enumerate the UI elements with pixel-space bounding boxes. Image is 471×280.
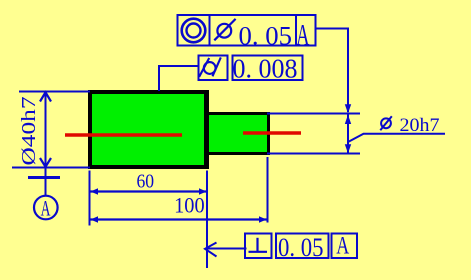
40h7 open arrow down — [40, 158, 51, 167]
60 arrow right — [199, 188, 207, 194]
20h7 dimension line — [347, 114, 349, 154]
cylindricity symbol — [199, 57, 221, 76]
centerline left segment — [65, 133, 182, 136]
20h7 bottom extension line — [267, 153, 360, 155]
step edge overlap — [204, 90, 209, 169]
100 arrow left — [91, 216, 99, 222]
concentricity symbol — [182, 19, 206, 43]
svg-text:0. 05: 0. 05 — [278, 233, 324, 262]
60 arrow left — [91, 188, 99, 194]
svg-text:0. 05: 0. 05 — [239, 20, 293, 50]
20h7 arrow down inside — [345, 144, 351, 153]
F3 open arrow at step extension line — [205, 243, 217, 257]
svg-text:A: A — [296, 17, 310, 52]
svg-text:0. 008: 0. 008 — [233, 54, 298, 84]
feature control frame F1 box: concentricity 0.05 A — [178, 15, 316, 46]
shaft large section (40h7 cylinder) — [90, 92, 207, 167]
dimension 100 line — [90, 218, 267, 220]
svg-text:A: A — [336, 232, 349, 260]
svg-text:Ø40h7: Ø40h7 — [18, 97, 40, 166]
20h7 arrow up inside — [345, 115, 351, 124]
20h7 top extension line — [267, 113, 360, 115]
F1 leader wire to 20h7 dimension line — [316, 29, 349, 113]
40h7 top extension line — [19, 91, 90, 93]
40h7 dimension line — [45, 92, 47, 168]
svg-text:100: 100 — [174, 193, 205, 218]
dimension 60 line — [90, 190, 207, 192]
svg-text:20h7: 20h7 — [400, 116, 440, 136]
svg-text:A: A — [41, 196, 51, 220]
diameter symbol in F1 — [214, 19, 235, 40]
feature control frame F2 boxes: cylindricity 0.008 — [199, 56, 303, 81]
extension line below right face — [267, 157, 269, 223]
perpendicularity symbol — [249, 238, 268, 252]
40h7 bottom extension line — [12, 167, 90, 169]
extension line below step — [206, 171, 208, 269]
shaft small section (20h7 cylinder) — [207, 114, 269, 154]
datum A symbol stem — [28, 168, 60, 220]
20h7 text leader — [348, 134, 445, 142]
extension line below left shaft edge — [89, 171, 91, 226]
F3 leader wire — [206, 248, 247, 250]
centerline right segment — [243, 131, 301, 134]
svg-text:60: 60 — [137, 171, 155, 192]
F1 leader arrow — [345, 104, 351, 113]
diameter symbol for 20h7 — [380, 116, 392, 130]
40h7 open arrow up — [40, 92, 51, 101]
100 arrow right — [259, 216, 267, 222]
F2 leader wire to large cylinder surface — [159, 66, 199, 91]
feature control frame F3 boxes: perpendicularity 0.05 A — [245, 234, 357, 259]
